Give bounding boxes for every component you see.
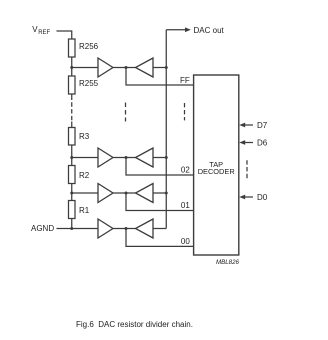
wire A4 output to mid junction <box>113 228 136 230</box>
svg-text:D6: D6 <box>257 138 268 147</box>
wire A1 output to bus junction <box>113 67 136 69</box>
junction output bus row FF <box>165 66 168 69</box>
wire FF tap to R255 <box>71 68 73 77</box>
resistor R1 <box>69 201 76 219</box>
wire continuation (dashed) data inputs <box>246 160 248 178</box>
junction output bus row 02 <box>165 156 168 159</box>
wire R3 to node 02 tap <box>71 145 73 158</box>
wire B2 input to output bus <box>153 157 166 159</box>
wire D0 input <box>245 196 254 198</box>
svg-text:AGND: AGND <box>31 224 54 233</box>
svg-text:D7: D7 <box>257 121 268 130</box>
buffer B4 (row 00, left-pointing) <box>136 219 154 238</box>
svg-text:02: 02 <box>181 166 190 175</box>
wire into R3 <box>71 122 73 128</box>
junction row 02 mid <box>125 156 128 159</box>
resistor R255 <box>69 76 76 94</box>
buffer B3 (row 01, left-pointing) <box>136 184 154 203</box>
wire row 01 to decoder input 01 <box>126 193 194 211</box>
wire B1 input to output bus <box>153 67 166 69</box>
resistor R256 <box>69 39 76 57</box>
svg-text:Fig.6 DAC resistor divider ch: Fig.6 DAC resistor divider chain. <box>76 320 193 329</box>
wire R2 to node 01 tap <box>71 184 73 194</box>
arrowhead D0 <box>239 195 245 200</box>
svg-text:R2: R2 <box>79 171 90 180</box>
svg-text:R1: R1 <box>79 206 90 215</box>
svg-text:R256: R256 <box>79 42 99 51</box>
junction FF tap <box>70 66 73 69</box>
svg-text:FF: FF <box>180 76 190 85</box>
svg-text:01: 01 <box>181 201 190 210</box>
wire continuation (dashed) resistor string <box>71 102 73 120</box>
wire R256 bottom to node FF tap <box>71 57 73 68</box>
wire continuation (dashed) decoder input column <box>184 103 186 120</box>
arrowhead DAC out <box>185 27 191 32</box>
wire 02 tap to buffer <box>72 157 98 159</box>
arrowhead D7 <box>239 123 245 128</box>
wire FF tap to buffer <box>72 67 98 69</box>
wire A2 output to bus junction <box>113 157 136 159</box>
svg-text:DECODER: DECODER <box>198 167 235 176</box>
wire 01 tap to buffer <box>72 192 98 194</box>
wire AGND to tap <box>57 228 72 230</box>
wire R255 bottom <box>71 94 73 100</box>
junction output bus row 01 <box>165 192 168 195</box>
wire row 00 to decoder input 00 <box>126 229 194 247</box>
resistor R3 <box>69 128 76 146</box>
svg-text:R3: R3 <box>79 132 90 141</box>
op-amp U1 TAP DECODER block <box>194 75 239 255</box>
wire DAC output bus <box>165 30 167 229</box>
svg-text:REF: REF <box>38 30 50 36</box>
node VREF label <box>32 25 50 36</box>
wire 01 tap to R1 <box>71 193 73 201</box>
svg-text:D0: D0 <box>257 193 268 202</box>
svg-text:R255: R255 <box>79 79 99 88</box>
wire AGND tap to buffer <box>72 228 98 230</box>
junction row 00 mid <box>125 227 128 230</box>
junction row 01 mid <box>125 192 128 195</box>
buffer B2 (row 02, left-pointing) <box>136 148 154 167</box>
svg-text:DAC out: DAC out <box>194 26 225 35</box>
buffer B1 (row FF, left-pointing) <box>136 58 154 77</box>
buffer A3 (row 01, right-pointing) <box>98 184 113 203</box>
wire row 02 to decoder input 02 <box>126 158 194 176</box>
junction 01 tap <box>70 192 73 195</box>
junction AGND tap <box>70 227 73 230</box>
buffer A4 (row 00, right-pointing) <box>98 219 113 238</box>
wire VREF to resistor string top <box>57 31 72 39</box>
buffer A1 (row FF, right-pointing) <box>98 58 113 77</box>
arrowhead D6 <box>239 140 245 145</box>
wire 02 tap to R2 <box>71 158 73 166</box>
junction row FF mid <box>125 66 128 69</box>
wire bus to DAC out arrow <box>166 29 185 31</box>
wire D6 input <box>245 142 254 144</box>
buffer A2 (row 02, right-pointing) <box>98 148 113 167</box>
wire R1 to node AGND <box>71 219 73 229</box>
wire A3 output to bus junction <box>113 192 136 194</box>
svg-text:00: 00 <box>181 237 190 246</box>
wire B3 input to output bus <box>153 192 166 194</box>
wire D7 input <box>245 124 254 126</box>
wire continuation (dashed) buffer output column <box>125 103 127 122</box>
wire row FF to decoder input FF <box>126 68 194 86</box>
wire B4 input to output bus end <box>153 228 166 230</box>
svg-text:MBL826: MBL826 <box>216 259 240 266</box>
junction 02 tap <box>70 156 73 159</box>
resistor R2 <box>69 166 76 184</box>
